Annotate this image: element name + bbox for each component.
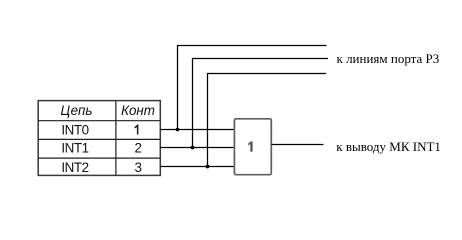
svg-text:к выводу МК INT1: к выводу МК INT1 — [336, 139, 441, 154]
connector pin-table X1 (frame) — [38, 101, 160, 176]
wire INT0 branch to port P3 (up and right) — [178, 46, 327, 130]
svg-text:Цепь: Цепь — [61, 103, 93, 118]
component block 1 (body) — [234, 119, 271, 175]
svg-text:INT0: INT0 — [61, 123, 88, 138]
node junction on INT1 wire — [191, 146, 195, 150]
svg-text:3: 3 — [135, 160, 142, 175]
wire output of block 1 — [271, 144, 323, 146]
wire INT1 branch to port P3 (up and right) — [193, 59, 329, 148]
svg-text:INT1: INT1 — [61, 141, 88, 156]
wire INT2 horizontal (pin 3 to block) — [160, 166, 234, 168]
svg-text:Конт: Конт — [121, 103, 155, 118]
svg-text:2: 2 — [135, 141, 142, 156]
pin number 1 — [135, 125, 139, 135]
svg-text:INT2: INT2 — [61, 160, 88, 175]
component block 1 designator "1" — [248, 141, 253, 151]
node junction on INT2 wire — [206, 165, 210, 169]
wire INT2 branch to port P3 (up and right) — [208, 74, 327, 167]
wire INT0 horizontal (pin 1 to block) — [160, 129, 234, 131]
svg-text:к линиям порта Р3: к линиям порта Р3 — [337, 51, 440, 66]
wire INT1 horizontal (pin 2 to block) — [160, 147, 234, 149]
node junction on INT0 wire — [176, 128, 180, 132]
